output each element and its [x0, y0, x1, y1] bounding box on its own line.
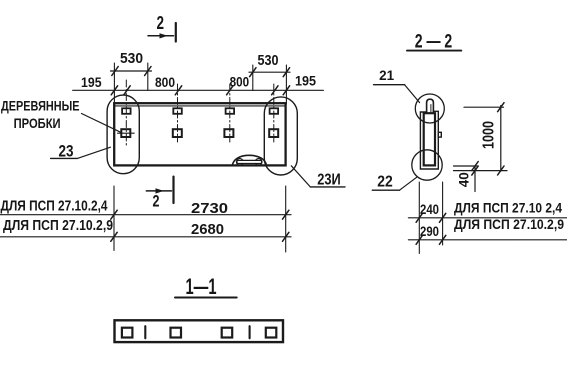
section marker 2 bottom : arrow line — [146, 190, 171, 192]
ext line panel right edge up — [285, 65, 287, 104]
section inner rect — [424, 113, 435, 165]
svg-text:2: 2 — [153, 192, 160, 211]
svg-text:195: 195 — [295, 73, 316, 89]
lifting loop dome — [232, 155, 266, 165]
main dim line (195-800-800-195) — [73, 89, 324, 91]
1-1 plug square 3 — [222, 328, 233, 338]
svg-text:22: 22 — [377, 174, 393, 191]
dim 1000 top ext line — [464, 106, 504, 108]
section plug inner line — [430, 105, 432, 113]
svg-text:ПРОБКИ: ПРОБКИ — [14, 115, 61, 131]
svg-text:ДЛЯ ПСП 27.10.2,4: ДЛЯ ПСП 27.10.2,4 — [1, 198, 108, 214]
section marker 2 bottom : arrow head — [156, 188, 164, 193]
dim 40 long ext line — [454, 170, 508, 172]
section marker 2 bottom : section line — [172, 177, 174, 203]
lifting loop rod — [237, 160, 262, 163]
title 2-2 underline — [407, 50, 461, 52]
main dim ticks — [111, 86, 289, 95]
thickness ext line v1 — [418, 182, 420, 254]
dim 40 vertical line — [474, 166, 476, 192]
wooden plug square 4 — [269, 129, 278, 137]
svg-text:21: 21 — [379, 67, 394, 83]
svg-text:530: 530 — [120, 50, 143, 67]
section marker 2 top : arrow head — [160, 33, 168, 38]
dim row1 line — [0, 214, 291, 216]
plug center line 1 — [125, 80, 127, 146]
label 23I underline — [310, 186, 345, 188]
wooden plug square 1 — [121, 129, 130, 137]
1-1 plug square 2 — [171, 328, 182, 338]
dim 40 short ext line — [454, 165, 478, 167]
ext line panel left edge up — [113, 63, 115, 103]
panel top inner line — [114, 105, 285, 107]
plug center line 4 — [273, 84, 275, 142]
svg-text:ДЛЯ ПСП 27.10.2,9: ДЛЯ ПСП 27.10.2,9 — [454, 216, 564, 232]
dim 1000 vertical line — [500, 106, 502, 172]
wooden plug square 3 — [224, 129, 233, 137]
svg-text:240: 240 — [420, 201, 439, 217]
top notch 3 — [226, 108, 235, 114]
tick 530 left a — [112, 67, 118, 76]
thickness ext line v2 — [442, 182, 444, 245]
svg-text:40: 40 — [456, 172, 472, 187]
dim 40 ticks — [472, 162, 478, 176]
svg-text:1—1: 1—1 — [186, 274, 217, 299]
section plug profile — [427, 99, 434, 112]
lifting loop end arc right — [256, 159, 262, 166]
svg-text:2 — 2: 2 — 2 — [415, 32, 453, 53]
ext line 530R left — [252, 65, 254, 91]
length ext left — [113, 186, 115, 251]
length dim ticks — [111, 210, 289, 241]
svg-text:ДЛЯ ПСП 27.10.2,9: ДЛЯ ПСП 27.10.2,9 — [3, 218, 113, 234]
section outer outline — [420, 111, 438, 169]
dim line 530 right — [249, 71, 290, 73]
section right nub — [438, 132, 441, 137]
length ext right — [285, 186, 287, 252]
plug center line 3 — [229, 84, 231, 142]
1-1 loop mark left — [144, 326, 146, 338]
tick 530 left b — [145, 67, 151, 76]
1-1 plug square 4 — [266, 328, 277, 338]
svg-text:ДЛЯ ПСП 27.10 2,4: ДЛЯ ПСП 27.10 2,4 — [454, 200, 562, 216]
detail circle 21 top — [415, 94, 444, 123]
label 22 leader — [400, 177, 418, 190]
dim row2 line — [0, 236, 291, 238]
dim line 240 row — [408, 217, 567, 219]
wooden plug square 2 — [173, 129, 182, 137]
left capsule — [107, 95, 139, 174]
svg-text:290: 290 — [420, 223, 439, 239]
section marker 2 top : arrow line — [148, 35, 174, 37]
tick 530 right a — [250, 68, 256, 77]
plug1 horizontal dash — [118, 132, 135, 134]
dim line 290 row — [408, 239, 567, 241]
dim 1000 ticks — [498, 103, 504, 175]
dim line 530 left — [111, 70, 152, 72]
label 22 underline — [372, 189, 399, 191]
svg-text:800: 800 — [155, 74, 175, 90]
right capsule — [264, 97, 297, 175]
leader wooden plugs — [82, 114, 122, 133]
ext line 530L right — [147, 63, 149, 91]
label 23 leader — [77, 147, 110, 158]
svg-text:195: 195 — [81, 74, 102, 90]
label 21 underline — [374, 84, 405, 86]
1-1 loop mark right — [249, 326, 251, 338]
lifting loop end arc left — [236, 159, 242, 166]
svg-text:1000: 1000 — [481, 121, 498, 149]
svg-text:ДЕРЕВЯННЫЕ: ДЕРЕВЯННЫЕ — [1, 98, 80, 113]
view 1-1 outline — [115, 320, 284, 342]
section marker 2 top : section line — [175, 23, 177, 42]
thickness dim ticks — [416, 213, 446, 244]
svg-text:23И: 23И — [317, 172, 341, 189]
svg-text:2730: 2730 — [191, 201, 228, 217]
svg-text:2: 2 — [157, 13, 165, 33]
title 1-1 underline — [175, 297, 237, 299]
detail circle 22 bottom — [412, 150, 442, 180]
label 23 underline — [51, 157, 78, 159]
top notch 4 — [270, 108, 279, 114]
svg-text:530: 530 — [258, 52, 279, 69]
svg-text:2680: 2680 — [191, 222, 224, 238]
tick 530 right b — [283, 68, 289, 77]
top notch 2 — [173, 108, 182, 114]
panel outline — [114, 103, 285, 165]
1-1 plug square 1 — [122, 328, 132, 338]
label 23I leader — [291, 166, 310, 187]
top notch 1 — [122, 108, 131, 114]
label 21 leader — [405, 85, 420, 103]
plug center line 2 — [177, 84, 179, 142]
